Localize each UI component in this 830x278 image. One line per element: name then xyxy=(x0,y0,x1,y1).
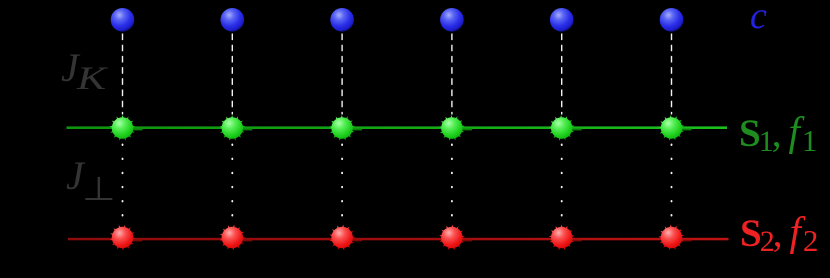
spin S1/f1 site 1 (green spiky ball) xyxy=(110,115,136,141)
spin S2/f2 site 1 (red spiky ball) xyxy=(110,225,136,251)
spin S1/f1 site 3 (green spiky ball) xyxy=(329,115,355,141)
conduction electron c, site 5 (blue ball) xyxy=(550,8,574,32)
spin S2/f2 site 6 (red spiky ball) xyxy=(659,225,685,251)
wire stub red site 3 xyxy=(346,240,362,242)
wire stub green site 1 xyxy=(127,129,143,131)
spin S1/f1 site 4 (green spiky ball) xyxy=(439,115,465,141)
label J_K xyxy=(61,44,101,91)
wire: J_K dashed coupling, site 3 xyxy=(341,34,343,115)
wire: J_perp dotted coupling, site 6 xyxy=(671,145,673,229)
wire stub red site 5 xyxy=(566,240,582,242)
spin S1/f1 site 5 (green spiky ball) xyxy=(549,115,575,141)
wire: J_K dashed coupling, site 2 xyxy=(231,34,233,115)
wire: J_K dashed coupling, site 6 xyxy=(671,34,673,115)
wire stub green site 6 xyxy=(676,129,692,131)
spin S1/f1 site 6 (green spiky ball) xyxy=(659,115,685,141)
label S2, f2 xyxy=(740,208,813,256)
conduction electron c, site 3 (blue ball) xyxy=(330,8,354,32)
conduction electron c, site 6 (blue ball) xyxy=(660,8,684,32)
wire: J_perp dotted coupling, site 5 xyxy=(561,145,563,229)
wire stub green site 3 xyxy=(346,129,362,131)
wire stub green site 5 xyxy=(566,129,582,131)
conduction electron c, site 2 (blue ball) xyxy=(221,8,245,32)
wire stub red site 1 xyxy=(127,240,143,242)
wire: J_K dashed coupling, site 4 xyxy=(451,34,453,115)
spin S2/f2 site 3 (red spiky ball) xyxy=(329,225,355,251)
wire stub red site 6 xyxy=(676,240,692,242)
label J_perp xyxy=(66,152,113,199)
wire stub red site 4 xyxy=(456,240,472,242)
label S1, f1 xyxy=(739,108,812,156)
spin S2/f2 site 5 (red spiky ball) xyxy=(549,225,575,251)
wire: J_perp dotted coupling, site 1 xyxy=(122,145,124,229)
label c (conduction band) xyxy=(750,0,767,38)
spin S1/f1 site 2 (green spiky ball) xyxy=(219,115,245,141)
wire: S1 chain line (green) xyxy=(67,126,728,129)
wire stub red site 2 xyxy=(236,240,252,242)
spin S2/f2 site 4 (red spiky ball) xyxy=(439,225,465,251)
wire: J_perp dotted coupling, site 3 xyxy=(341,145,343,229)
conduction electron c, site 4 (blue ball) xyxy=(440,8,464,32)
wire stub green site 4 xyxy=(456,129,472,131)
wire: J_perp dotted coupling, site 2 xyxy=(231,145,233,229)
wire: J_perp dotted coupling, site 4 xyxy=(451,145,453,229)
conduction electron c, site 1 (blue ball) xyxy=(111,8,135,32)
wire: J_K dashed coupling, site 5 xyxy=(561,34,563,115)
wire: S2 chain line (red) xyxy=(68,238,729,241)
spin S2/f2 site 2 (red spiky ball) xyxy=(220,225,246,251)
wire stub green site 2 xyxy=(236,129,252,131)
wire: J_K dashed coupling, site 1 xyxy=(122,34,124,115)
